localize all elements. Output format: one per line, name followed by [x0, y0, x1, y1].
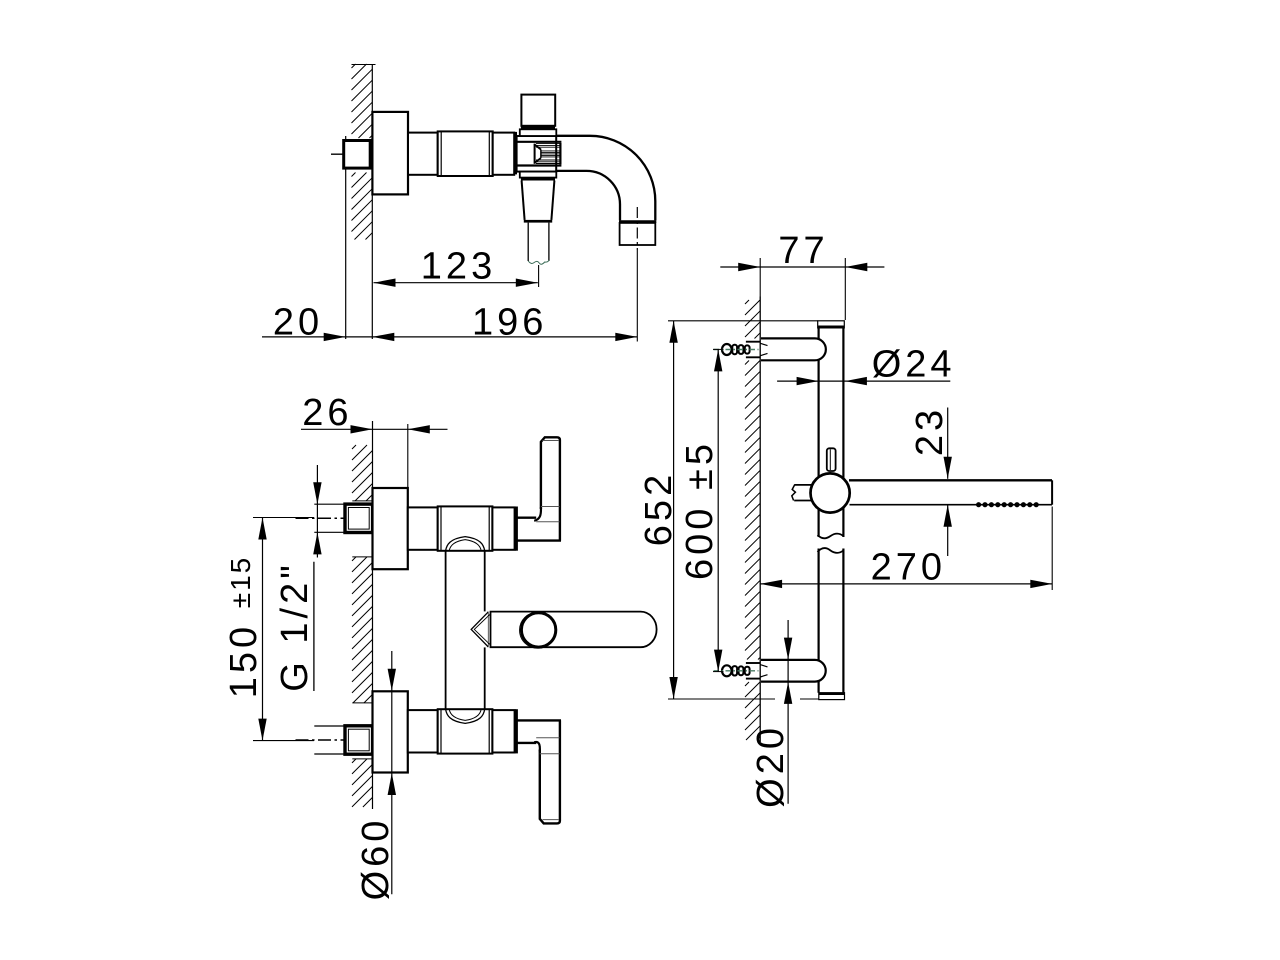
wall back line (view 1): [345, 136, 347, 339]
bottom flange: [373, 691, 408, 772]
top anchor sleeve: [746, 341, 760, 343]
diverter knob circle: [520, 612, 556, 648]
tube break line: [528, 260, 549, 264]
handset holder stub: [794, 484, 812, 486]
slider knob: [827, 448, 836, 471]
bottom bracket: [761, 660, 826, 682]
dim line 196 / 20: [262, 336, 637, 338]
spout arm outer edge: [556, 136, 655, 221]
rail top cap: [818, 321, 845, 328]
dim 23: [947, 408, 949, 479]
bottom union nut: [345, 726, 373, 754]
svg-text:652: 652: [638, 471, 680, 546]
outlet taper: [522, 181, 525, 220]
riser tube right edge: [484, 551, 486, 612]
top joint line: [515, 507, 518, 551]
body centerline: [331, 153, 409, 155]
handle shoulder: [520, 129, 557, 136]
rail break: [814, 537, 848, 549]
top cylinder: [408, 507, 438, 549]
top screw centerline: [714, 349, 759, 351]
bottom screw centerline: [714, 670, 759, 672]
dim G 1/2: [316, 465, 318, 558]
spout end cap line: [619, 220, 656, 223]
bottom cylinder: [408, 710, 438, 752]
svg-text:600 ±5: 600 ±5: [679, 440, 721, 580]
riser tube left edge: [445, 551, 447, 709]
top screw: [722, 344, 732, 355]
rail tube: [817, 328, 819, 693]
top end segment: [492, 507, 514, 549]
body cylinder C: [493, 133, 515, 175]
tee body: [517, 136, 557, 172]
outlet tube: [527, 223, 529, 261]
dim 270: [760, 583, 1052, 585]
lower shoulder: [520, 172, 557, 178]
top union nut: [345, 504, 373, 532]
wall surface line (view 1): [371, 64, 373, 339]
wall hole edge lines: [352, 500, 372, 502]
G 1/2 underline: [313, 562, 315, 691]
extension line aerator: [636, 250, 638, 342]
svg-text:77: 77: [778, 230, 828, 272]
svg-text:G 1/2": G 1/2": [274, 561, 316, 691]
handle collar band: [521, 126, 555, 130]
bottom inlet centerline: [296, 739, 375, 741]
extension line outlet: [538, 265, 540, 287]
svg-text:270: 270: [871, 547, 946, 589]
bottom inlet pipe: [314, 725, 345, 727]
dim dia60: [391, 651, 393, 894]
svg-text:Ø24: Ø24: [872, 344, 956, 386]
knurled cartridge: [536, 144, 560, 164]
bottom anchor sleeve: [746, 662, 760, 664]
wall flange: [372, 112, 408, 194]
bottom joint line: [515, 709, 518, 753]
bottom arch: [446, 709, 485, 723]
handle knob: [521, 95, 555, 126]
dim 77: [720, 266, 884, 268]
dim 652: [673, 321, 675, 699]
top inlet pipe: [314, 503, 345, 505]
outlet band: [524, 220, 552, 223]
svg-text:23: 23: [909, 406, 951, 456]
diverter lever capsule: [491, 612, 657, 648]
top inlet centerline: [296, 517, 375, 519]
dim 600: [717, 349, 719, 671]
top flange: [373, 488, 408, 569]
svg-text:20: 20: [273, 302, 323, 344]
spray nozzle dots: [976, 502, 1039, 507]
wall surface line (view 3): [759, 297, 761, 743]
svg-text:123: 123: [421, 246, 496, 288]
aerator: [620, 223, 656, 245]
rail bottom cap: [819, 693, 845, 700]
wall union nut: [344, 141, 371, 169]
wall hatching (view 3): [745, 300, 760, 740]
dim line 123: [374, 282, 538, 284]
bottom lever blade: [540, 720, 560, 823]
top bracket: [761, 338, 826, 360]
dim dia20: [787, 620, 789, 804]
dim dia24: [777, 380, 950, 382]
bracket hole taper: [760, 343, 767, 345]
aerator centerline: [636, 207, 638, 250]
wall hatching (view 2): [352, 445, 373, 807]
spout arm inner edge: [556, 171, 620, 221]
svg-text:Ø60: Ø60: [355, 817, 397, 901]
dim 150: [262, 518, 264, 741]
wall top tick: [352, 64, 376, 66]
top valve block: [438, 506, 493, 550]
svg-text:Ø20: Ø20: [750, 724, 792, 808]
bottom screw: [722, 665, 732, 676]
top arch: [446, 537, 485, 551]
bottom end segment: [492, 710, 514, 752]
svg-text:26: 26: [302, 392, 352, 434]
wall hatching (view 1): [352, 64, 373, 240]
body block B: [438, 131, 493, 176]
top lever stem: [517, 517, 537, 519]
cartridge cavity lines: [517, 141, 562, 143]
wall surface line (view 2): [372, 421, 374, 809]
chevron joint: [471, 612, 488, 646]
hand shower handle: [849, 479, 1052, 481]
tee joint flange line: [514, 132, 517, 175]
slider body circle: [811, 473, 850, 512]
bracket hole taper: [760, 665, 767, 667]
lower collar band: [521, 178, 555, 181]
svg-text:196: 196: [472, 302, 547, 344]
dim 26: [301, 428, 448, 430]
top lever blade: [541, 437, 560, 540]
body cylinder A: [408, 133, 438, 175]
bottom valve block: [438, 709, 493, 753]
bottom lever stem: [517, 719, 562, 721]
